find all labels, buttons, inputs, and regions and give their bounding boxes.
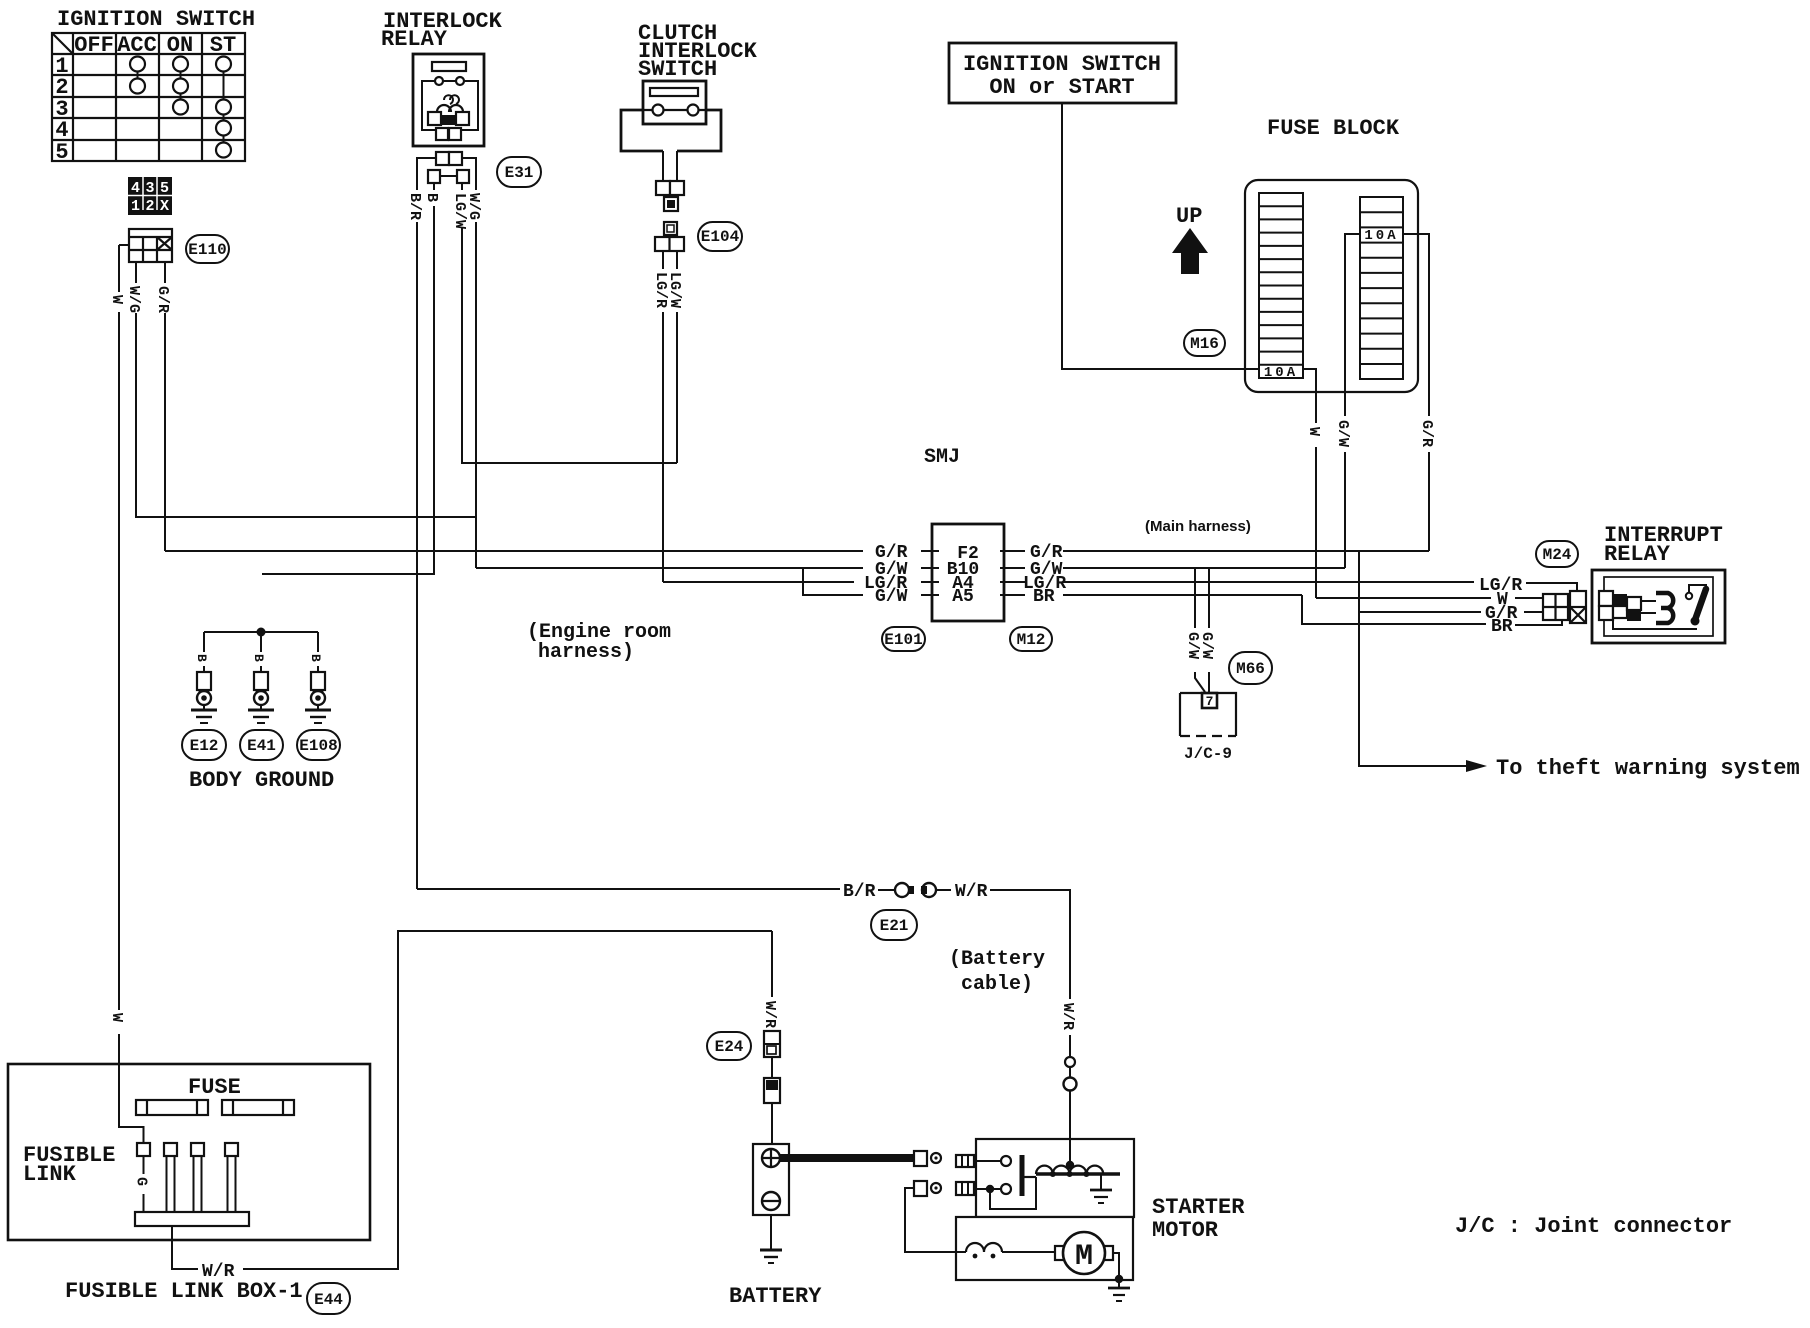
solenoid terminal stripes row1 [956,1155,974,1167]
joint connector J/C-9 box [1180,693,1236,736]
wire LG/R from clutch switch [662,251,664,582]
wire W/R from bus bar [172,931,772,1269]
arrow to theft warning system [1466,760,1487,772]
wire W from fuse block to interrupt relay [1316,597,1543,599]
svg-text:G/W: G/W [1334,420,1351,447]
motor field coil [966,1243,1002,1252]
ignition switch ON or START box [949,43,1176,103]
svg-text:W: W [108,1013,125,1022]
terminal 2 rails [167,1156,175,1212]
svg-text:2: 2 [145,198,154,215]
svg-text:4: 4 [131,180,140,197]
wire B/R from relay [417,158,436,889]
oval E12 [182,730,226,760]
svg-text:E21: E21 [880,917,909,935]
svg-text:E104: E104 [701,228,740,246]
battery cable terminal circles [1065,1057,1075,1067]
table contact circles [130,57,231,158]
svg-text:5: 5 [160,180,169,197]
battery minus terminal [762,1192,780,1210]
svg-text:G/R: G/R [154,286,171,313]
svg-text:E24: E24 [715,1038,744,1056]
svg-text:FUSE BLOCK: FUSE BLOCK [1267,116,1400,141]
relay internal wires [1613,585,1706,629]
svg-text:E101: E101 [884,631,922,649]
relay contact circles [435,77,443,85]
relay contact squares with black bar [439,115,458,125]
svg-text:G/W: G/W [875,587,908,607]
clutch switch stem wires [663,151,677,181]
svg-text:MOTOR: MOTOR [1152,1218,1219,1243]
svg-text:(Battery: (Battery [949,948,1045,971]
wire G/R row left [165,550,863,552]
battery cable terminal [914,1151,927,1166]
connector E104 lower cells [655,237,684,251]
body ground drop 3 [317,632,319,710]
svg-text:FUSE: FUSE [188,1075,241,1100]
wire G/W from fuse block [1345,234,1360,568]
relay pivot circle [1686,593,1692,599]
clutch switch contact line [643,109,706,111]
svg-text:To theft warning system: To theft warning system [1496,756,1800,781]
wire to battery [771,1057,773,1144]
wire from terminal to motor coil [905,1188,966,1252]
ignition switch pin-number block [128,177,172,215]
right fuse ladder [1360,197,1403,379]
clutch switch slot [650,88,698,96]
svg-text:ACC: ACC [117,33,157,58]
svg-text:J/C-9: J/C-9 [1184,745,1232,763]
junction dot W/R at coil [1066,1161,1074,1169]
solenoid plunger (T bar) [1020,1155,1025,1196]
solenoid contact wire row2 with junction [974,1188,1001,1190]
oval E110 [186,235,229,263]
svg-text:M12: M12 [1017,631,1046,649]
fusible link terminal 1 [137,1143,150,1156]
svg-text:W/R: W/R [1059,1003,1076,1030]
wire from contact 2 to coil [990,1177,1036,1209]
svg-text:W/G: W/G [465,193,482,220]
relay pin squares [1599,591,1613,606]
svg-text:B: B [308,654,323,662]
svg-text:E41: E41 [247,737,276,755]
solenoid contact wire row1 [974,1160,1001,1162]
oval E44 [307,1283,350,1314]
solenoid terminal stripes row2 [956,1182,974,1195]
svg-text:E31: E31 [505,164,534,182]
svg-text:E12: E12 [190,737,219,755]
svg-text:X: X [160,198,169,215]
svg-text:M16: M16 [1190,335,1219,353]
relay lower squares [436,128,448,140]
svg-text:harness): harness) [538,641,634,664]
connector E104 upper cell [664,222,677,235]
clutch switch contact circles [653,105,664,116]
svg-text:B/R: B/R [406,193,423,220]
wire W/R inside solenoid box [1069,1139,1071,1165]
starter ground symbol [1108,1287,1130,1290]
svg-text:E110: E110 [188,241,226,259]
oval E24 [707,1032,751,1060]
connector E24 lower (black) [764,1078,780,1103]
wire G/W drop to J/C-9 (right) [1208,568,1210,693]
wire LG/W from clutch switch [676,251,678,463]
svg-text:LG/W: LG/W [666,272,683,308]
clutch switch outer body [621,110,721,151]
fusible link terminal 4 [225,1143,238,1156]
wire W/G from E110 [136,262,476,517]
battery plus terminal [762,1149,780,1167]
wire W from E110 [119,245,144,1143]
wire G/R from fuse block [1403,234,1429,551]
svg-text:cable): cable) [961,973,1033,996]
svg-text:FUSIBLE LINK BOX-1: FUSIBLE LINK BOX-1 [65,1279,303,1304]
E21 fusible link connector circles [895,883,909,897]
svg-text:RELAY: RELAY [1604,542,1671,567]
fuse symbol 1 [136,1100,208,1115]
svg-text:BODY GROUND: BODY GROUND [189,768,334,793]
battery cable (thick) [780,1154,914,1162]
svg-text:B: B [251,654,266,662]
svg-text:SWITCH: SWITCH [638,57,717,82]
connector E31 [436,152,449,165]
battery ground wire [770,1215,772,1250]
svg-text:1: 1 [131,198,140,215]
svg-text:10A: 10A [1364,228,1398,244]
clutch switch inner body [643,81,706,124]
motor to ground wire [1113,1253,1119,1288]
starter motor lower box [956,1217,1133,1280]
clutch switch connector squares [656,181,670,195]
svg-text:BATTERY: BATTERY [729,1284,822,1309]
svg-text:E44: E44 [314,1291,343,1309]
oval E101 [882,627,925,651]
wire W/R down to E24 [771,931,773,1031]
relay slot [432,62,466,71]
G/W bracket joining rows 2 and 4 [803,568,863,595]
oval E108 [297,730,340,760]
ignition switch table [52,33,245,161]
relay coil contact (3 shape) [1656,593,1673,623]
terminal 4 rails [228,1156,236,1212]
body ground drop 1 [203,632,205,710]
left fuse ladder [1259,193,1303,378]
svg-text:G/R: G/R [1418,420,1435,447]
wire W/R from E21 to starter [936,889,951,891]
wire stub E110 left [119,244,129,246]
terminal 3 rails [194,1156,202,1212]
fusible link bus bar [135,1212,249,1226]
svg-text:(Main harness): (Main harness) [1145,518,1251,535]
oval E104 [698,222,742,251]
motor brush squares [1055,1246,1064,1260]
battery box [753,1144,789,1215]
svg-text:E108: E108 [299,737,337,755]
relay lever [1695,589,1706,620]
svg-text:ON or START: ON or START [989,75,1134,100]
wire from ignition box to fuse block [1062,103,1259,369]
svg-text:G: G [133,1177,150,1186]
svg-text:STARTER: STARTER [1152,1195,1245,1220]
wire G/R branch to interrupt relay and theft warning [1359,551,1481,766]
interlock relay box [413,54,484,146]
wire B from relay [262,183,434,574]
svg-text:5: 5 [55,140,68,165]
connector E110 [129,229,172,262]
fusible link box-1 outline [8,1064,370,1240]
connector E24 upper [764,1031,780,1057]
svg-text:W: W [108,295,125,304]
svg-text:7: 7 [1206,694,1214,709]
fusible link terminal 2 [164,1143,177,1156]
fuse symbol 2 [222,1100,294,1115]
solenoid contact circle 2 [1001,1184,1011,1194]
second cable terminal [914,1181,927,1196]
interrupt relay box [1592,570,1725,643]
oval M12 [1010,627,1052,651]
SMJ connector box [932,524,1004,621]
svg-text:LINK: LINK [23,1162,77,1187]
relay coil [437,105,463,112]
fuse block outline [1245,180,1418,392]
wire LG/R stub into connector [1526,583,1577,591]
svg-text:W/R: W/R [955,882,988,902]
svg-text:UP: UP [1176,204,1202,229]
oval M66 [1229,652,1272,684]
wire B/R to E21 fusible link [417,888,840,890]
body ground junction wire [204,631,318,633]
svg-text:W: W [1305,427,1322,436]
svg-text:ST: ST [210,33,236,58]
wire coil to motor [1002,1251,1055,1253]
fusible link terminal 3 [191,1143,204,1156]
connector M24 block [1543,591,1586,623]
svg-text:M: M [1075,1240,1093,1274]
solenoid internal ground [1100,1174,1102,1190]
starter solenoid box [976,1139,1134,1217]
body ground drop 2 [260,632,262,710]
svg-text:RELAY: RELAY [381,27,448,52]
wire G/W row left [476,567,863,569]
svg-text:IGNITION SWITCH: IGNITION SWITCH [57,7,255,32]
solenoid contact circle 1 [1001,1156,1011,1166]
svg-text:J/C : Joint connector: J/C : Joint connector [1455,1214,1732,1239]
svg-text:IGNITION SWITCH: IGNITION SWITCH [963,52,1161,77]
svg-text:M66: M66 [1236,660,1265,678]
svg-text:BR: BR [1491,617,1513,637]
solenoid pull-in coil [1036,1166,1103,1174]
wire BR drop to interrupt relay [1302,595,1486,624]
oval M16 [1184,330,1225,356]
UP arrow [1172,228,1208,274]
oval E21 [871,910,917,940]
svg-text:B: B [194,654,209,662]
svg-text:ON: ON [167,33,193,58]
SMJ right ticks [1000,551,1025,595]
oval M24 [1536,541,1578,567]
svg-text:BR: BR [1033,587,1055,607]
clutch switch terminal w/ black core [664,197,678,211]
wire G/W drop to J/C-9 (left) [1195,568,1205,692]
svg-text:W/G: W/G [125,286,142,313]
svg-text:10A: 10A [1264,365,1298,381]
SMJ left ticks [921,551,939,595]
svg-text:B/R: B/R [843,882,876,902]
battery ground symbol [760,1249,782,1252]
wire W from fuse block [1303,369,1316,598]
svg-text:M24: M24 [1543,546,1572,564]
table contact connector lines [138,71,224,143]
svg-text:B: B [423,193,440,202]
body ground junction dot [257,628,266,637]
wire LG/W from relay [462,183,677,463]
svg-text:W/R: W/R [761,1001,778,1028]
wire G/R from E110 [164,262,166,551]
starter ground junction dot [1115,1275,1123,1283]
terminal 1 wire with G label [143,1156,145,1212]
svg-text:SMJ: SMJ [924,446,960,469]
oval E41 [240,730,283,760]
motor M circle [1063,1232,1105,1274]
wire LG/R row left [663,581,854,583]
J/C-9 pin 7 cell [1202,693,1217,708]
svg-text:3: 3 [145,180,154,197]
oval E31 [497,157,541,187]
svg-text:A5: A5 [952,587,974,607]
wire W/G from relay [462,158,476,568]
relay inner frame [422,81,478,130]
svg-text:OFF: OFF [74,33,114,58]
interrupt relay inner frame [1604,577,1713,636]
svg-text:G/W: G/W [1198,632,1215,659]
